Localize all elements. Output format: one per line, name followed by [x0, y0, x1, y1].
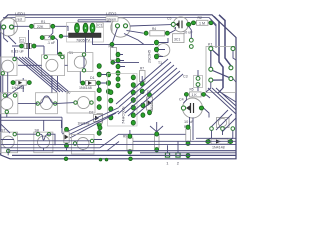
wire C4 R5 drops: [184, 94, 211, 140]
wire LED2 right to C5: [130, 25, 171, 26]
LED2 outline: [111, 18, 130, 37]
resistor R9 vertical: [123, 134, 133, 154]
relay K1: [206, 43, 236, 93]
wire bottom bus: [1, 143, 236, 145]
capacitor C5 10uF: [167, 17, 193, 35]
diode D5 1N4148: [206, 139, 233, 150]
resistor R4: [144, 27, 169, 36]
IC U1 74HC00N: [108, 74, 138, 127]
wire LED2 to R4 diagonals: [124, 31, 144, 45]
svg-text:R5: R5: [190, 88, 194, 92]
svg-text:C4: C4: [179, 98, 184, 102]
diode D1 1N4148: [79, 76, 101, 90]
connector pad column x118: [116, 52, 120, 88]
switch S8: [34, 129, 53, 153]
wire R1 down to C6: [49, 28, 53, 37]
svg-text:1N4148: 1N4148: [79, 86, 92, 90]
node IC1 left pad: [59, 34, 63, 38]
wire mid horizontal: [1, 117, 62, 133]
svg-text:green: green: [107, 17, 116, 21]
diode D4 vertical: [97, 114, 103, 124]
wire T1 connections: [113, 38, 168, 82]
svg-text:22K: 22K: [37, 25, 44, 29]
diode D2 1N4148: [78, 111, 103, 126]
svg-text:.1 uF: .1 uF: [47, 41, 56, 45]
LED1 value box red: [16, 17, 26, 22]
node pad right of C6: [58, 52, 62, 56]
resistor R5 1K: [184, 88, 205, 98]
svg-text:IC1: IC1: [97, 24, 102, 28]
wire right lower diagonals: [208, 88, 236, 114]
svg-text:D2: D2: [89, 111, 93, 115]
LED1 pad 1: [2, 25, 6, 29]
wire misc verticals middle: [15, 46, 126, 92]
voltage regulator IC1 7805: [67, 23, 104, 43]
capacitor C6 0.1uF: [40, 35, 56, 44]
wire LED1 to R1: [14, 25, 35, 27]
wire R1 to IC1: [55, 26, 68, 31]
svg-text:C2: C2: [20, 39, 24, 43]
switch S6: [66, 91, 95, 114]
wire top ground bus: [3, 17, 209, 19]
svg-text:1 K: 1 K: [192, 93, 198, 97]
capacitor C2 0.33uF: [11, 43, 36, 53]
svg-text:K1: K1: [208, 43, 213, 47]
wire LED2 drop: [112, 28, 118, 47]
resistor R1 22K: [30, 20, 55, 29]
svg-text:2SC945: 2SC945: [148, 50, 152, 63]
wire C5 to pads: [189, 26, 192, 38]
wire IC1 down: [61, 36, 110, 52]
diode D4b vertical left: [64, 127, 69, 147]
switch S4: [36, 93, 58, 114]
wire S7 entry: [1, 124, 83, 155]
svg-text:1 M: 1 M: [199, 22, 205, 26]
wire LED1 drop: [4, 29, 16, 44]
LED1 pad 2: [10, 25, 14, 29]
node pad above R9: [98, 126, 102, 130]
transistor T1 2SC945: [148, 40, 170, 65]
wire C2 stubs: [12, 30, 44, 57]
switch S1: [68, 51, 93, 72]
capacitor C2 label: [19, 37, 25, 42]
wire relay internal: [211, 50, 229, 93]
switch S3: [1, 57, 18, 76]
svg-text:LED2: LED2: [106, 12, 117, 17]
svg-text:1N4148: 1N4148: [212, 146, 225, 150]
wire relay to edge: [206, 51, 236, 92]
switch S5: [1, 93, 18, 114]
node below LED2: [110, 42, 114, 46]
svg-text:red: red: [17, 17, 22, 21]
capacitor C4 10uF: [179, 98, 204, 125]
svg-text:0.33 uF: 0.33 uF: [11, 49, 25, 53]
svg-text:10 uF: 10 uF: [183, 31, 193, 35]
LED2 pad 1: [116, 24, 120, 28]
resistor R2 1M: [191, 16, 213, 26]
wire R9 stub: [100, 130, 130, 134]
IC U1 pads right: [131, 75, 135, 125]
wire right bevel power drops: [214, 17, 223, 89]
wire C3 stubs: [7, 70, 209, 118]
wire S8 curve: [16, 134, 55, 145]
resistor R7 vertical: [140, 67, 146, 94]
LED2 pad 2: [124, 24, 128, 28]
capacitor C3: [183, 75, 203, 88]
svg-text:C3: C3: [183, 75, 188, 79]
wire R4 right: [169, 27, 175, 33]
connector pad column x108: [106, 72, 110, 94]
svg-text:R2: R2: [198, 16, 202, 20]
LED1 outline: [0, 18, 18, 36]
wire diagonals left: [16, 57, 69, 92]
connector pad column x99: [97, 64, 101, 136]
wire top bus 2: [78, 20, 112, 22]
LED2 value box green: [106, 17, 118, 22]
wire S2 horizontals: [18, 56, 84, 68]
switch S2: [42, 55, 65, 76]
IC U1 pads left: [109, 90, 113, 120]
svg-text:74HC00N: 74HC00N: [121, 106, 126, 124]
wire center diagonals bundle: [116, 59, 183, 116]
resistor R10 vertical: [184, 125, 190, 158]
diode D3 vertical: [147, 90, 154, 115]
switch S7: [1, 129, 18, 153]
node pads below C5: [189, 38, 193, 42]
connector pin 2: [176, 153, 180, 166]
svg-text:1N4148: 1N4148: [12, 86, 25, 90]
transistor T2: [210, 118, 235, 131]
wire S-curve through S4: [18, 96, 74, 104]
svg-text:D1: D1: [90, 76, 95, 80]
svg-text:3C1: 3C1: [174, 38, 180, 42]
via pads bottom edge: [64, 157, 68, 161]
node pads left of D3: [141, 103, 145, 108]
connector pin 1: [165, 153, 169, 166]
svg-text:R7: R7: [140, 67, 144, 71]
svg-text:C5: C5: [167, 17, 171, 21]
wire pins up: [168, 141, 179, 153]
resistor R3: [109, 45, 117, 65]
svg-text:R1: R1: [41, 20, 45, 24]
wire T2 stubs: [208, 130, 233, 139]
wire diagonals to bottom row: [62, 108, 119, 139]
svg-text:S1: S1: [69, 51, 74, 55]
resistor R8 vertical: [154, 132, 159, 152]
wire step trace bottom middle: [1, 140, 102, 141]
diode D1a 1N4148 left: [11, 80, 31, 90]
wire C6 right: [55, 38, 60, 55]
switch S9: [72, 135, 95, 155]
board outline: [1, 15, 236, 159]
wire left verticals: [3, 72, 23, 97]
transistor T3: [173, 34, 185, 43]
svg-text:LED1: LED1: [15, 12, 26, 17]
wire R8 top: [150, 122, 163, 132]
svg-text:7805TV: 7805TV: [76, 38, 90, 43]
